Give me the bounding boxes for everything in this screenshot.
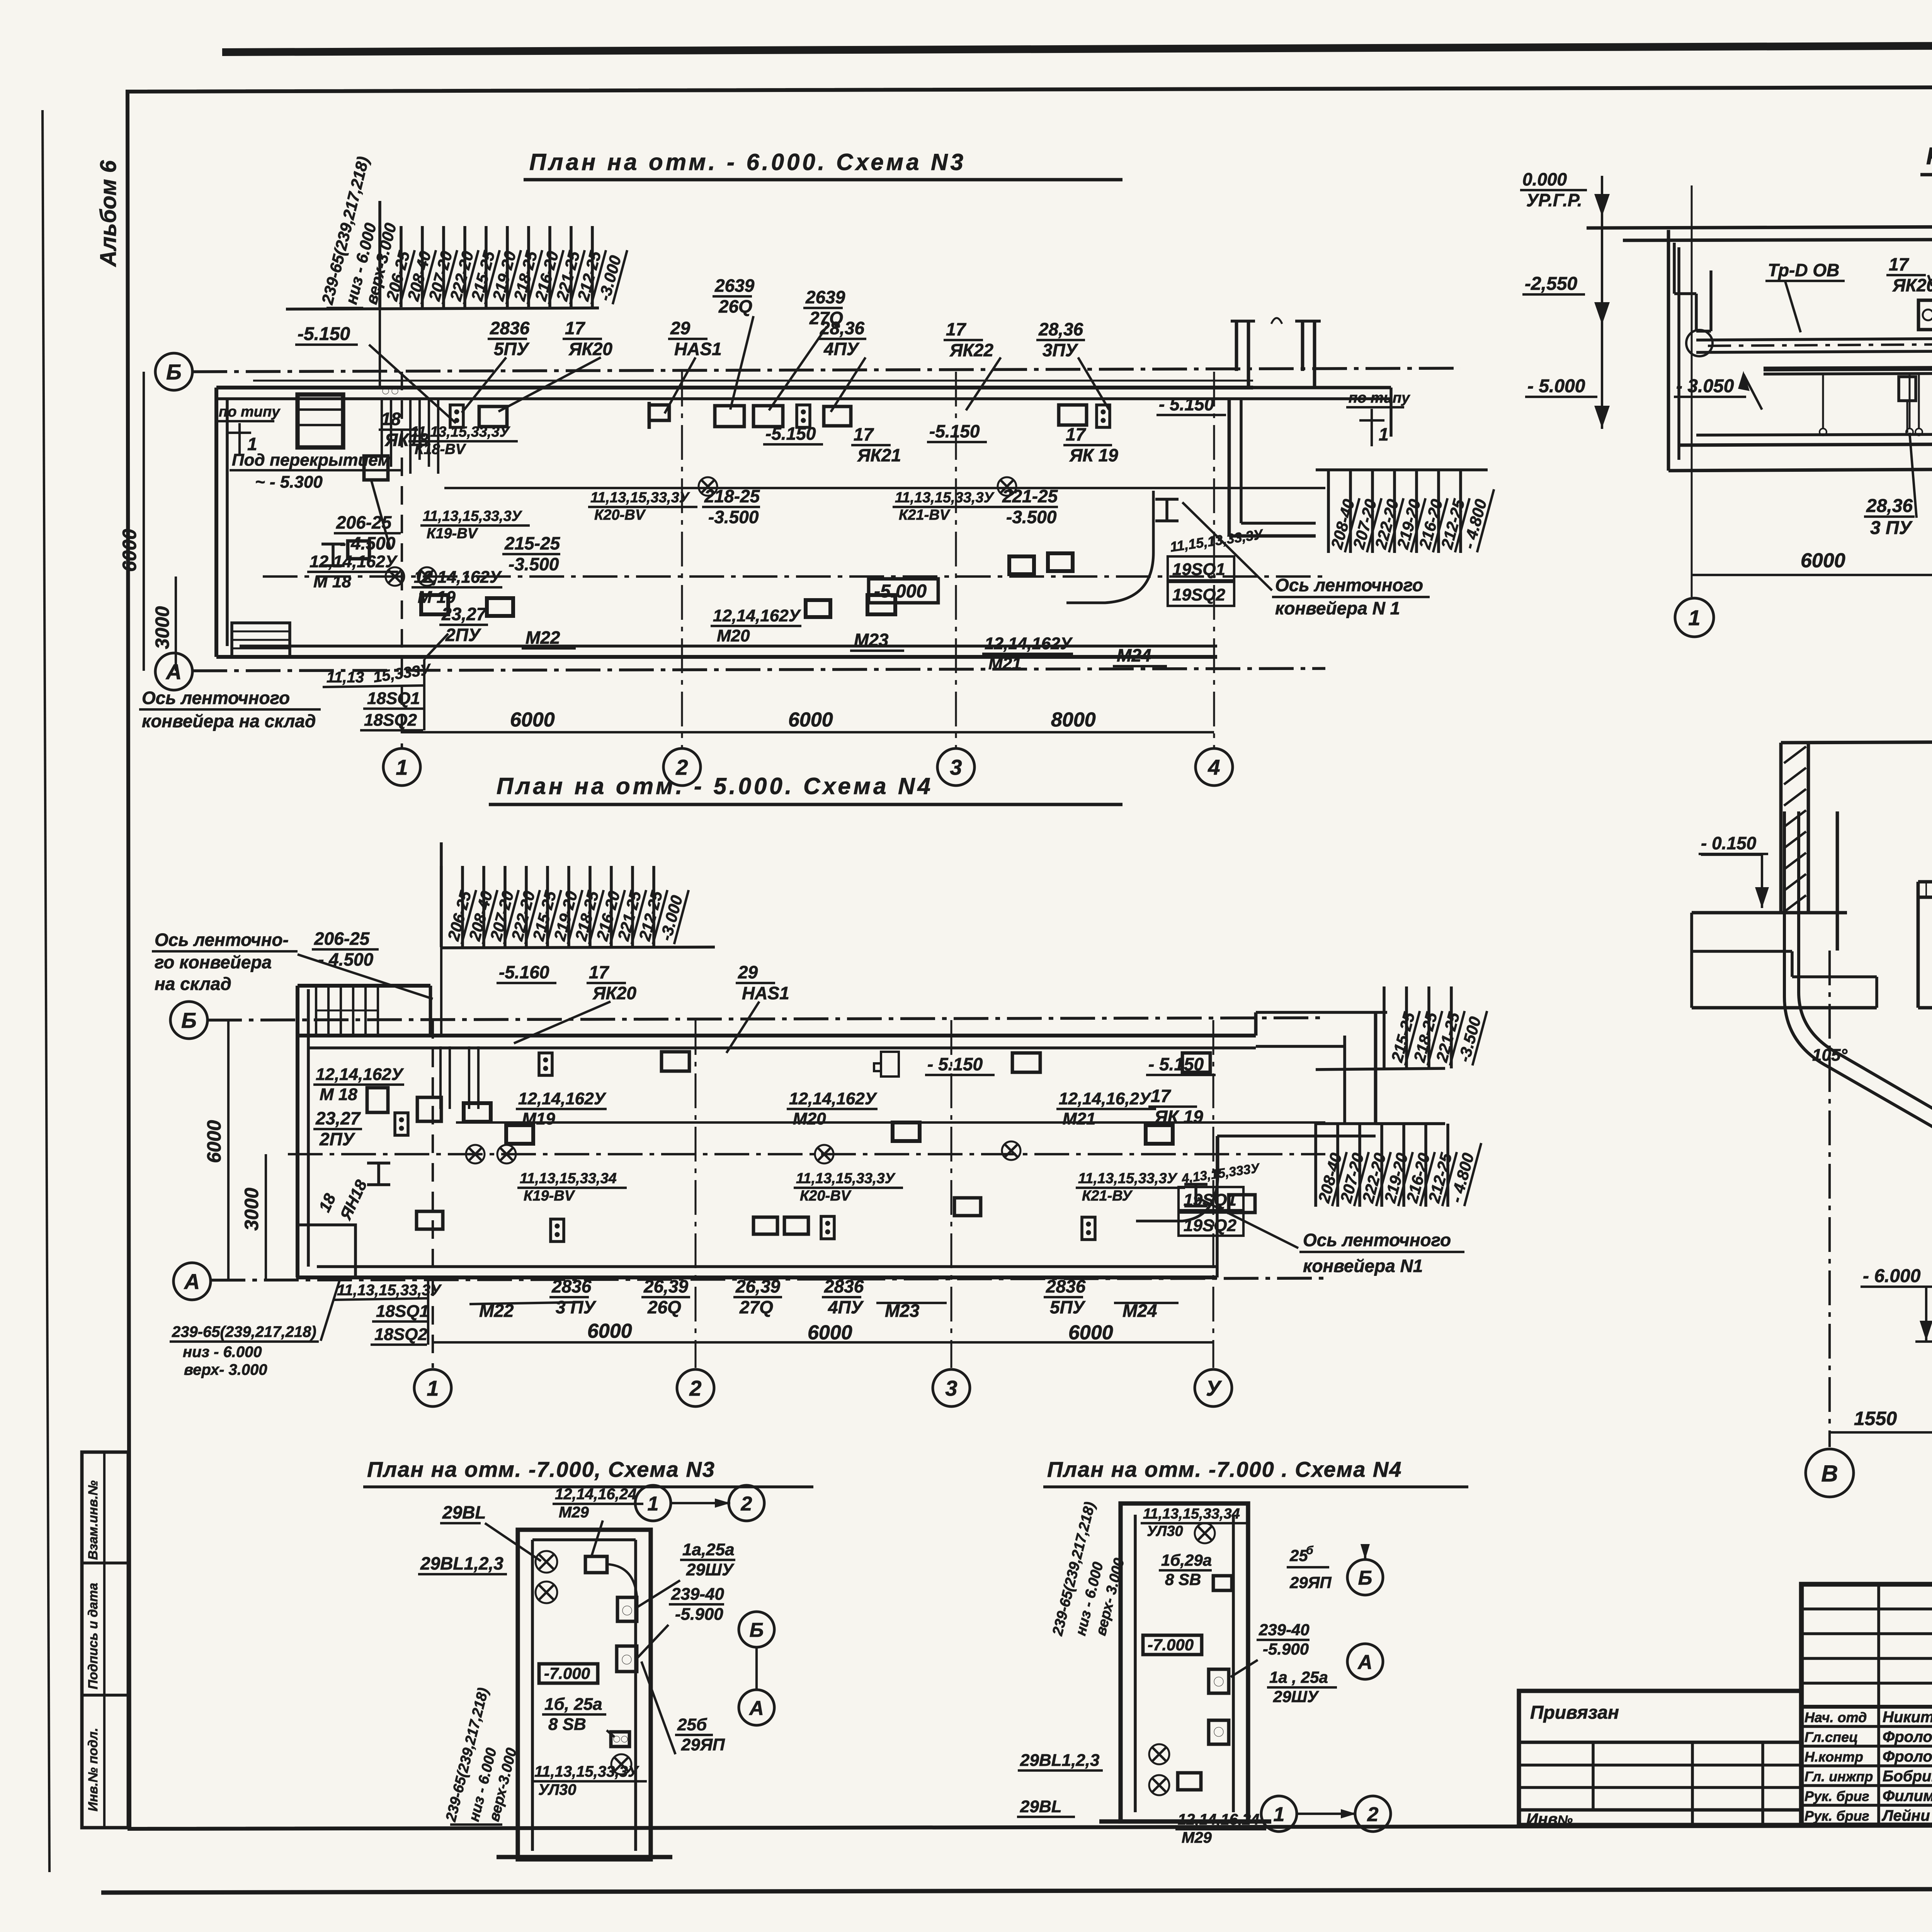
svg-text:У: У (1206, 1376, 1222, 1400)
svg-text:239-40: 239-40 (671, 1585, 724, 1604)
svg-text:М19: М19 (522, 1109, 555, 1128)
svg-text:12,14,162У: 12,14,162У (789, 1089, 878, 1108)
section 1-1 dimension row (1692, 574, 1932, 576)
svg-text:-3.500: -3.500 (1006, 507, 1057, 527)
svg-text:по типу: по типу (219, 404, 281, 420)
svg-text:Гл.спец: Гл.спец (1804, 1729, 1858, 1745)
svg-text:Лейни: Лейни (1881, 1807, 1930, 1824)
section 1-1 grid circles (1675, 598, 1714, 637)
svg-text:11,13,15,33,34: 11,13,15,33,34 (1143, 1506, 1240, 1522)
svg-text:1: 1 (648, 1493, 659, 1515)
svg-text:3ПУ: 3ПУ (1043, 340, 1079, 360)
svg-text:Фролов: Фролов (1883, 1748, 1932, 1765)
svg-text:239-40: 239-40 (1259, 1621, 1310, 1639)
svg-text:М21: М21 (1063, 1109, 1096, 1128)
svg-text:А: А (1357, 1651, 1372, 1673)
svg-text:18SQ2: 18SQ2 (364, 711, 417, 730)
plan4 grid circles (414, 1369, 451, 1406)
svg-text:2639: 2639 (805, 287, 845, 307)
svg-text:29ЯП: 29ЯП (681, 1735, 725, 1754)
svg-text:Инв.№ подл.: Инв.№ подл. (86, 1728, 100, 1811)
svg-text:12,14,162У: 12,14,162У (518, 1089, 607, 1108)
title block left grid (1801, 1607, 1932, 1611)
svg-text:Нач. отд: Нач. отд (1804, 1709, 1867, 1725)
svg-text:25: 25 (1289, 1546, 1308, 1565)
svg-text:А: А (748, 1697, 764, 1719)
svg-text:Рук. бриг: Рук. бриг (1804, 1788, 1869, 1804)
plan4 component row (539, 1053, 552, 1075)
svg-text:12,14,16,24: 12,14,16,24 (1178, 1811, 1259, 1828)
svg-text:26,39: 26,39 (643, 1276, 689, 1296)
svg-text:К21-ВV: К21-ВV (899, 507, 951, 523)
svg-text:План на отм. - 5.000. Схе: План на отм. - 5.000. Схема N4 (497, 773, 933, 799)
small plan3 cabinet (518, 1530, 651, 1859)
svg-text:М29: М29 (559, 1504, 589, 1521)
svg-text:2ПУ: 2ПУ (319, 1129, 356, 1149)
svg-text:верх- 3.000: верх- 3.000 (184, 1361, 267, 1378)
svg-text:29: 29 (670, 318, 690, 338)
title block outer (1801, 1584, 1932, 1825)
svg-text:Разрез 1-1: Разрез 1-1 (1926, 143, 1932, 170)
svg-text:5ПУ: 5ПУ (494, 339, 530, 359)
svg-text:11,13,15,33,3У: 11,13,15,33,3У (411, 424, 511, 440)
section 1-1 wires with end circles (1822, 374, 1824, 428)
svg-text:6000: 6000 (1801, 549, 1845, 572)
svg-text:Взам.инв.№: Взам.инв.№ (86, 1480, 100, 1560)
svg-text:М21: М21 (988, 654, 1022, 673)
section 1-1 conveyor tube (1696, 335, 1932, 340)
svg-text:206-25: 206-25 (314, 929, 370, 949)
privyazan table (1519, 1691, 1801, 1825)
left margin stamp column (82, 1452, 128, 1828)
svg-text:ЯК21: ЯК21 (857, 445, 901, 465)
plan4 cluster (439, 1046, 442, 1109)
svg-text:К20-ВV: К20-ВV (800, 1188, 852, 1204)
svg-text:Б: Б (166, 360, 182, 384)
svg-text:М29: М29 (1182, 1829, 1212, 1846)
svg-text:11,13,15,33,3У: 11,13,15,33,3У (1078, 1170, 1178, 1187)
svg-text:8 SВ: 8 SВ (1165, 1570, 1201, 1588)
svg-text:Фролов: Фролов (1883, 1728, 1932, 1745)
svg-text:- 5.150: - 5.150 (927, 1054, 983, 1074)
svg-text:8 SВ: 8 SВ (548, 1715, 586, 1734)
svg-text:18SQ1: 18SQ1 (376, 1302, 429, 1321)
svg-text:- 5.150: - 5.150 (1159, 394, 1214, 414)
svg-text:-5.900: -5.900 (675, 1605, 723, 1624)
svg-text:К19-ВV: К19-ВV (524, 1188, 575, 1204)
plan3 conveyor arc right (1066, 491, 1153, 603)
svg-text:го конвейера: го конвейера (155, 952, 272, 972)
svg-text:Инв№: Инв№ (1526, 1810, 1573, 1828)
svg-text:12,14,162У: 12,14,162У (310, 552, 398, 571)
svg-text:М23: М23 (854, 630, 889, 650)
svg-text:Б: Б (1358, 1567, 1372, 1589)
svg-text:Филимонович: Филимонович (1883, 1787, 1932, 1804)
svg-text:1: 1 (427, 1376, 439, 1400)
svg-text:2836: 2836 (1046, 1276, 1086, 1296)
svg-text:УР.Г.Р.: УР.Г.Р. (1526, 190, 1582, 210)
svg-text:2639: 2639 (714, 276, 755, 296)
svg-text:-3.500: -3.500 (708, 507, 759, 527)
svg-text:19SQ1: 19SQ1 (1184, 1190, 1236, 1209)
plan3 top-right duct (1235, 321, 1238, 371)
svg-text:17: 17 (1151, 1086, 1172, 1106)
svg-text:12,14,162У: 12,14,162У (316, 1065, 404, 1084)
svg-text:12,14,162У: 12,14,162У (713, 606, 801, 625)
svg-text:Никитин: Никитин (1883, 1709, 1932, 1726)
svg-text:М 18: М 18 (320, 1085, 357, 1104)
section 1-1 floor beam (1764, 366, 1932, 369)
plan4 mid chain line (288, 1153, 1325, 1155)
svg-text:конвейера N 1: конвейера N 1 (1275, 598, 1400, 618)
section 1-1 hanging devices (1899, 377, 1916, 401)
svg-text:29ВL1,2,3: 29ВL1,2,3 (1020, 1751, 1099, 1770)
svg-text:11,13,15,33,3У: 11,13,15,33,3У (337, 1282, 442, 1299)
svg-text:- 5.000: - 5.000 (1527, 376, 1585, 396)
sheet left edge line (43, 110, 49, 1872)
svg-text:~ - 5.300: ~ - 5.300 (255, 473, 323, 492)
plan4 motors and components (367, 1088, 388, 1112)
svg-text:Под перекрытием: Под перекрытием (232, 451, 390, 469)
section 2-2 left slab (1692, 911, 1847, 915)
plan3 component row under wall (450, 405, 463, 427)
svg-text:29ВL1,2,3: 29ВL1,2,3 (420, 1553, 503, 1573)
svg-text:-7.000: -7.000 (544, 1664, 590, 1682)
plan3 grid columns verticals (401, 372, 403, 748)
section 2-2 top slab with comb (1918, 880, 1932, 884)
svg-text:Подпись и дата: Подпись и дата (86, 1583, 100, 1689)
svg-text:29ШУ: 29ШУ (686, 1560, 735, 1579)
svg-text:19SQ2: 19SQ2 (1172, 585, 1226, 604)
svg-text:2: 2 (1367, 1803, 1379, 1826)
svg-text:29: 29 (738, 962, 758, 982)
svg-text:- 5.150: - 5.150 (1148, 1054, 1204, 1074)
svg-text:Тр-D ОВ: Тр-D ОВ (1768, 260, 1839, 280)
svg-text:29ЯП: 29ЯП (1289, 1573, 1332, 1592)
svg-text:М24: М24 (1117, 645, 1151, 665)
small plan4 cabinet (1121, 1503, 1248, 1821)
svg-text:-5.160: -5.160 (499, 962, 549, 982)
svg-text:Гл. инжпр: Гл. инжпр (1804, 1769, 1873, 1784)
svg-text:на склад: на склад (155, 974, 231, 994)
svg-text:239-65(239,217,218): 239-65(239,217,218) (172, 1323, 316, 1340)
plan3 mid lines (444, 487, 1325, 489)
plan3 building walls (216, 386, 1253, 389)
plan4 left dimensions (227, 1020, 230, 1280)
svg-text:К19-ВV: К19-ВV (427, 526, 478, 542)
svg-text:-2,550: -2,550 (1525, 274, 1577, 294)
plan3 right corridor walls (1253, 386, 1391, 389)
section 2-2 cable duct from left (1784, 811, 1932, 1163)
svg-text:-5.150: -5.150 (765, 423, 816, 444)
svg-text:- 4.500: - 4.500 (340, 533, 396, 553)
svg-text:221-25: 221-25 (1002, 486, 1058, 506)
section 2-2 left wall hatched (1779, 743, 1783, 912)
plan3 axis B (155, 353, 192, 390)
svg-text:0.000: 0.000 (1522, 169, 1567, 189)
svg-text:6000: 6000 (587, 1320, 632, 1342)
svg-text:11,13,15,33,3У: 11,13,15,33,3У (590, 490, 690, 506)
svg-text:План на отм. - 6.000. Схем: План на отм. - 6.000. Схема N3 (529, 149, 966, 175)
svg-text:- 0.150: - 0.150 (1701, 833, 1757, 853)
plan3 wiring cluster (381, 399, 383, 460)
small plan3 -7.000 boxed (539, 1664, 598, 1683)
plan4 axis B (170, 1002, 207, 1039)
svg-text:6000: 6000 (203, 1120, 225, 1163)
svg-text:ЯК 19: ЯК 19 (1154, 1107, 1203, 1127)
plan4 label fan (440, 947, 715, 948)
section 1-1 enclosure (1667, 230, 1670, 471)
svg-text:- 3.050: - 3.050 (1676, 376, 1734, 396)
section 1-1 left stepped wall (1673, 243, 1676, 294)
svg-text:29ВL: 29ВL (442, 1502, 486, 1522)
plan4 top-right duct (1254, 1012, 1258, 1036)
plan3 lamp symbols K20 K21 (699, 477, 717, 496)
svg-text:М22: М22 (526, 628, 560, 648)
svg-text:А: А (165, 660, 182, 684)
svg-text:Ось ленточного: Ось ленточного (1275, 575, 1423, 595)
plan4 right fans (1316, 1068, 1445, 1070)
svg-text:по типу: по типу (1349, 390, 1410, 406)
svg-text:ЯК20: ЯК20 (568, 339, 612, 359)
svg-text:29ВL: 29ВL (1020, 1797, 1062, 1816)
svg-text:Ось ленточного: Ось ленточного (142, 688, 290, 708)
svg-text:18: 18 (381, 409, 401, 429)
svg-text:4ПУ: 4ПУ (828, 1297, 864, 1317)
svg-text:26Q: 26Q (718, 296, 752, 316)
svg-text:М20: М20 (793, 1109, 826, 1128)
svg-text:1б, 25а: 1б, 25а (544, 1695, 602, 1714)
svg-text:1: 1 (396, 755, 408, 779)
section 1-1 top slab (1587, 225, 1932, 228)
svg-text:Рук. бриг: Рук. бриг (1804, 1808, 1869, 1824)
svg-text:УЛ30: УЛ30 (538, 1781, 577, 1798)
plan4 walls (296, 986, 299, 1277)
svg-text:1: 1 (1274, 1803, 1285, 1826)
svg-text:17: 17 (946, 319, 967, 339)
svg-text:Ось ленточного: Ось ленточного (1303, 1230, 1451, 1250)
svg-text:М20: М20 (717, 626, 750, 645)
svg-text:План на отм. -7.000 . Схема: План на отм. -7.000 . Схема N4 (1047, 1457, 1402, 1481)
svg-text:2836: 2836 (551, 1276, 592, 1296)
svg-text:ЯК20: ЯК20 (1892, 275, 1932, 295)
plan4 conveyor arc right (1136, 1136, 1218, 1221)
small plan4 components (1195, 1523, 1215, 1543)
plan4 dimension row (433, 1341, 1213, 1344)
svg-text:6000: 6000 (510, 709, 555, 731)
svg-text:18SQ2: 18SQ2 (374, 1325, 428, 1344)
svg-text:6000: 6000 (1068, 1321, 1113, 1344)
sheet bottom edge line (101, 1888, 1932, 1893)
svg-text:215-25: 215-25 (504, 533, 561, 553)
plan3 -5.000 boxed level (869, 579, 938, 603)
svg-text:11,13: 11,13 (327, 669, 364, 686)
plan4 I-beams (1184, 1183, 1207, 1186)
svg-text:28,36: 28,36 (1866, 496, 1913, 516)
svg-text:11,13,15,33,3У: 11,13,15,33,3У (423, 508, 523, 524)
svg-text:4ПУ: 4ПУ (823, 339, 860, 359)
svg-text:3: 3 (945, 1376, 957, 1400)
svg-text:28,36: 28,36 (1038, 319, 1083, 339)
plan3 left label fan (286, 308, 599, 309)
svg-text:26Q: 26Q (647, 1297, 681, 1317)
svg-text:К18-ВV: К18-ВV (415, 441, 466, 457)
svg-text:11,13,15,33,3У: 11,13,15,33,3У (895, 490, 995, 506)
svg-text:29ШУ: 29ШУ (1273, 1687, 1320, 1706)
svg-text:11,13,15,33,3У: 11,13,15,33,3У (796, 1170, 896, 1187)
svg-text:19SQ2: 19SQ2 (1184, 1216, 1237, 1235)
small plan3 ground line (497, 1855, 672, 1859)
svg-text:19SQ1: 19SQ1 (1172, 560, 1225, 579)
svg-text:HAS1: HAS1 (742, 983, 789, 1003)
svg-text:23,27: 23,27 (441, 604, 487, 624)
section 1-1 grid verticals (1691, 185, 1693, 597)
plan3 I-beam symbols (1155, 498, 1179, 501)
small plan4 ground (1099, 1819, 1271, 1823)
svg-text:11,13,15,33,3У: 11,13,15,33,3У (534, 1763, 639, 1780)
svg-text:Ось ленточно-: Ось ленточно- (155, 930, 289, 950)
svg-text:ЯК20: ЯК20 (592, 983, 636, 1003)
svg-text:3000: 3000 (151, 606, 173, 649)
svg-text:К20-ВV: К20-ВV (594, 507, 646, 523)
plan3 grid circles (383, 748, 420, 786)
svg-text:11,13,15,33,34: 11,13,15,33,34 (520, 1170, 617, 1187)
svg-text:б: б (1306, 1544, 1314, 1557)
svg-text:- 6.000: - 6.000 (1863, 1266, 1921, 1286)
svg-text:Привязан: Привязан (1530, 1702, 1619, 1723)
svg-text:12,14,162У: 12,14,162У (985, 634, 1073, 653)
svg-text:2: 2 (741, 1493, 752, 1515)
svg-text:А: А (184, 1269, 200, 1294)
svg-text:2ПУ: 2ПУ (445, 625, 482, 645)
svg-text:1а,25а: 1а,25а (682, 1540, 735, 1559)
svg-text:17: 17 (565, 318, 586, 338)
plan4 thin line (456, 1121, 1325, 1124)
plan3 left dimension 6000/3000 (143, 372, 145, 671)
svg-text:18SQ1: 18SQ1 (367, 689, 420, 708)
svg-text:12,14,16,24: 12,14,16,24 (555, 1486, 636, 1503)
svg-text:5ПУ: 5ПУ (1050, 1297, 1086, 1317)
section 2-2 upper storey line with breaks (1781, 742, 1932, 743)
svg-text:Н.контр: Н.контр (1804, 1749, 1863, 1765)
section 2-2 grid circles (1806, 1449, 1854, 1497)
plan4 grid verticals (432, 1020, 434, 1368)
svg-text:26,39: 26,39 (735, 1276, 781, 1296)
svg-text:УЛ30: УЛ30 (1147, 1523, 1183, 1539)
plan4 axis A (173, 1263, 211, 1300)
svg-text:1: 1 (1379, 424, 1389, 444)
svg-text:12,14,162У: 12,14,162У (414, 568, 502, 587)
svg-text:1б,29а: 1б,29а (1161, 1551, 1212, 1569)
svg-text:конвейера на склад: конвейера на склад (142, 711, 316, 731)
svg-text:Бобрик: Бобрик (1883, 1768, 1932, 1785)
svg-text:Б: Б (750, 1619, 764, 1641)
svg-text:3 ПУ: 3 ПУ (1870, 518, 1913, 538)
svg-text:1: 1 (1688, 605, 1700, 630)
plan3 stairs bottom-left (232, 623, 290, 657)
plan3 leader lines from top labels (462, 357, 506, 413)
svg-text:3000: 3000 (241, 1188, 262, 1231)
svg-text:17: 17 (1066, 424, 1087, 444)
svg-text:6000: 6000 (808, 1321, 852, 1344)
svg-text:12,14,16,2У: 12,14,16,2У (1059, 1089, 1152, 1108)
svg-text:25б: 25б (677, 1715, 707, 1734)
svg-text:- 4.500: - 4.500 (318, 949, 374, 969)
svg-text:3 ПУ: 3 ПУ (556, 1297, 597, 1317)
svg-text:-5.000: -5.000 (874, 581, 927, 602)
svg-text:-5.900: -5.900 (1263, 1640, 1309, 1658)
plan3 motor boxes row (487, 598, 513, 616)
svg-text:27Q: 27Q (739, 1297, 773, 1317)
svg-text:206-25: 206-25 (336, 512, 392, 532)
plan3 axis A (155, 653, 192, 690)
svg-text:-5.150: -5.150 (929, 421, 980, 441)
plan3 K19 lamp symbols (386, 567, 404, 586)
svg-text:4: 4 (1207, 755, 1220, 779)
plan4 lower-left step (298, 1225, 355, 1277)
svg-text:М 18: М 18 (313, 572, 351, 591)
svg-text:1550: 1550 (1854, 1408, 1897, 1429)
svg-text:2: 2 (689, 1376, 701, 1400)
svg-text:ЯК22: ЯК22 (949, 340, 993, 360)
svg-text:17: 17 (589, 962, 610, 982)
svg-text:218-25: 218-25 (704, 486, 760, 506)
svg-text:6000: 6000 (119, 529, 140, 572)
svg-text:2836: 2836 (824, 1276, 864, 1296)
svg-text:17: 17 (1889, 254, 1910, 274)
svg-text:-3.500: -3.500 (509, 554, 559, 574)
small plan4 -7.000 boxed (1143, 1635, 1202, 1655)
plan3 dimension row (402, 731, 1214, 733)
small plan3 components (585, 1556, 607, 1573)
svg-text:низ - 6.000: низ - 6.000 (183, 1344, 262, 1361)
svg-text:17: 17 (854, 424, 874, 444)
svg-text:-7.000: -7.000 (1148, 1636, 1194, 1654)
svg-text:-5.150: -5.150 (298, 324, 350, 344)
svg-text:ЯК 19: ЯК 19 (1069, 445, 1118, 465)
svg-text:1а , 25а: 1а , 25а (1269, 1668, 1328, 1686)
section 1-1 yakor boxes on columns (1918, 300, 1932, 330)
svg-text:8000: 8000 (1051, 709, 1096, 731)
plan3 right fan of cable labels (1316, 468, 1488, 471)
section 2-2 pit top edges (1918, 1006, 1932, 1010)
svg-text:Альбом 6: Альбом 6 (96, 160, 121, 267)
svg-text:3: 3 (950, 755, 962, 779)
svg-text:План на отм. -7.000, Схема: План на отм. -7.000, Схема N3 (367, 1457, 715, 1481)
svg-text:2836: 2836 (490, 318, 530, 338)
svg-text:В: В (1821, 1461, 1838, 1486)
svg-text:23,27: 23,27 (315, 1108, 361, 1128)
sheet top bar (222, 43, 1932, 52)
svg-text:HAS1: HAS1 (674, 339, 722, 359)
svg-text:конвейера N1: конвейера N1 (1303, 1256, 1423, 1276)
svg-text:Б: Б (181, 1008, 197, 1032)
small plan3 fans symbols (536, 1551, 557, 1573)
plan3 stair block top-left (298, 395, 343, 447)
plan4 stairs (315, 986, 317, 1035)
svg-text:К21-ВУ: К21-ВУ (1082, 1188, 1133, 1204)
section 2-2 grid verticals (1828, 951, 1831, 1447)
svg-text:6000: 6000 (788, 709, 833, 731)
